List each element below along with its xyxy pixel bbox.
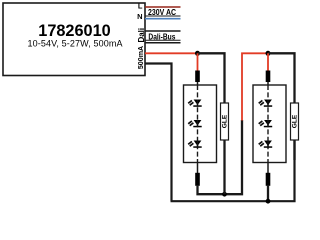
label Dali-Bus: [145, 31, 181, 41]
svg-text:GLE: GLE: [221, 114, 228, 128]
LED D4: [259, 100, 272, 107]
wire module 1 to fuse F2: [197, 163, 199, 174]
fuse F3 (top of module 2): [266, 71, 271, 83]
node B (junction GLE1 on return): [222, 192, 227, 197]
wire Dali bus lower: [145, 42, 181, 44]
wire LED string 1 (dashed): [197, 85, 199, 163]
wire F1 to module 1: [197, 82, 199, 86]
fuse F1 (top of module 1): [195, 71, 200, 83]
wire LED+ output (red) from driver to node A: [145, 52, 198, 54]
wire riser to module 2 (red top part): [242, 53, 268, 120]
label 230V AC: [145, 7, 181, 17]
svg-text:GLE: GLE: [291, 114, 298, 128]
wire Dali bus upper: [145, 30, 181, 32]
wire bottom return line: [171, 140, 295, 201]
wire N (230V neutral, blue): [145, 18, 181, 20]
LED D1: [188, 100, 202, 107]
wire LED- output (black) from driver down and along bottom: [145, 64, 172, 201]
GLE1 bypass element: [221, 103, 229, 194]
svg-text:L: L: [138, 2, 143, 11]
fuse F4 (bottom of module 2): [266, 173, 271, 186]
wire L (230V live, dark red): [145, 6, 181, 8]
svg-text:Dali: Dali: [137, 28, 146, 43]
node A (junction dot module 1 feed): [195, 51, 200, 56]
node C (junction dot module 2 feed): [266, 51, 271, 56]
wire node A to GLE1 (black, over the top): [198, 53, 225, 103]
wire node C to GLE2 (black, over the top): [268, 53, 295, 103]
node D (junction module 2 return): [266, 199, 271, 204]
GLE2 bypass element: [291, 103, 299, 160]
wire node A down to fuse F1 (red): [197, 53, 199, 71]
svg-text:500mA: 500mA: [137, 46, 145, 69]
LED module 1 box: [184, 85, 217, 163]
wire module 2 return to bottom line: [267, 185, 269, 201]
LED D5: [259, 120, 272, 127]
wire module 2 to fuse F4: [267, 163, 269, 174]
wire node C down to fuse F3 (red): [267, 53, 269, 71]
svg-text:N: N: [137, 12, 142, 21]
LED D3: [188, 141, 202, 148]
svg-text:10-54V, 5-27W, 500mA: 10-54V, 5-27W, 500mA: [28, 38, 123, 48]
LED D6: [259, 141, 272, 148]
LED D2: [188, 120, 202, 127]
wire F3 to module 2: [267, 82, 269, 86]
wire module 1 return: [198, 120, 243, 194]
fuse F2 (bottom of module 1): [195, 173, 200, 186]
LED driver box 17826010: [3, 3, 145, 76]
wire LED string 2 (dashed): [267, 85, 269, 163]
LED module 2 box: [253, 85, 286, 163]
svg-text:17826010: 17826010: [38, 22, 110, 40]
